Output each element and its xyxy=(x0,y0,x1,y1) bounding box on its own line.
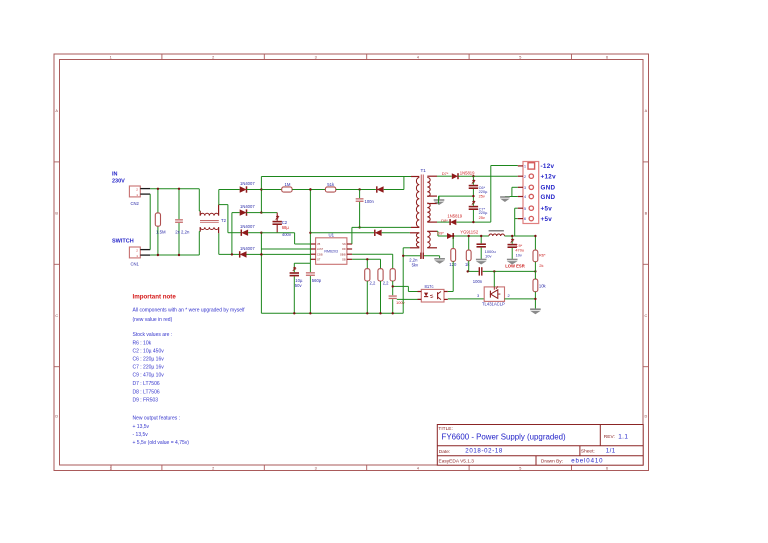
svg-text:T1: T1 xyxy=(421,168,427,173)
svg-text:C2 : 10µ 450v: C2 : 10µ 450v xyxy=(133,348,165,354)
svg-text:T2: T2 xyxy=(221,218,227,223)
resistor 51k xyxy=(325,187,335,192)
wire D3 anode to - vertical xyxy=(248,232,261,234)
wire opto left bottom xyxy=(397,298,422,300)
svg-text:D9 : FR503: D9 : FR503 xyxy=(133,398,159,404)
svg-text:C6 : 220µ 16v: C6 : 220µ 16v xyxy=(133,357,165,363)
wire D1 cathode to HV rail xyxy=(247,189,262,191)
svg-text:ebel0410: ebel0410 xyxy=(571,458,603,465)
resistor 1.5M xyxy=(155,213,160,226)
long vertical x=310.4 xyxy=(309,190,311,273)
svg-text:2: 2 xyxy=(212,467,214,471)
svg-text:C7 : 220µ 16v: C7 : 220µ 16v xyxy=(133,365,165,371)
svg-text:D8 : LT7506: D8 : LT7506 xyxy=(133,389,160,395)
T1 secondary leads xyxy=(427,175,437,177)
svg-text:817c: 817c xyxy=(425,284,434,289)
wire +12v row xyxy=(458,175,518,177)
wire top rail to D1 xyxy=(219,189,240,191)
svg-text:Stock values are :: Stock values are : xyxy=(133,332,173,338)
wire +5 rail left xyxy=(453,235,489,237)
svg-text:1.1: 1.1 xyxy=(618,433,628,440)
connector pads xyxy=(528,163,535,169)
resistor 120 xyxy=(452,236,454,249)
capacitor 560p xyxy=(306,272,315,273)
svg-text:2,2: 2,2 xyxy=(370,281,376,286)
svg-text:FY6600 - Power Supply (upgrade: FY6600 - Power Supply (upgraded) xyxy=(442,433,566,442)
svg-text:REV:: REV: xyxy=(604,434,615,440)
svg-text:C: C xyxy=(645,314,648,318)
svg-text:10v: 10v xyxy=(516,252,522,257)
wire C2 bottom to - rail xyxy=(261,232,277,234)
resistor 2,2 (c) xyxy=(390,269,395,281)
diode D4 1N4007 xyxy=(240,251,247,257)
TL431 xyxy=(484,287,504,302)
wire sec3 top jog xyxy=(436,230,439,232)
svg-text:1N4007: 1N4007 xyxy=(240,246,255,251)
svg-text:New output features :: New output features : xyxy=(133,416,181,422)
svg-text:10k: 10k xyxy=(539,284,547,289)
svg-text:3: 3 xyxy=(315,467,317,471)
wire opto collector to 120 xyxy=(448,291,453,293)
svg-text:4: 4 xyxy=(417,55,419,59)
junction aux row xyxy=(309,232,311,234)
IC U1 box xyxy=(316,238,347,264)
wire D4 anode xyxy=(247,253,262,255)
10u bottom lead xyxy=(293,276,295,313)
capacitor 10µ 50v xyxy=(290,272,299,274)
svg-text:GND: GND xyxy=(541,185,556,192)
svg-text:D: D xyxy=(55,415,58,419)
capacitor 100n snubber xyxy=(356,198,364,199)
wire mid GND tap xyxy=(439,195,474,197)
svg-text:2: 2 xyxy=(508,293,511,298)
T1 secondary winding 2 xyxy=(427,203,430,222)
svg-text:C: C xyxy=(55,314,58,318)
ground symbol (feedback) xyxy=(530,308,541,310)
svg-text:50v: 50v xyxy=(295,283,303,288)
choke T2 top winding xyxy=(200,213,218,215)
svg-text:5: 5 xyxy=(519,467,521,471)
svg-text:6: 6 xyxy=(606,55,608,59)
svg-text:1N4007: 1N4007 xyxy=(240,204,255,209)
C6/C7 chain xyxy=(472,176,474,185)
connector CN2 xyxy=(129,186,140,197)
connector CN1 xyxy=(129,247,140,258)
wire snubber rail y=189.5 xyxy=(261,189,281,191)
svg-text:51k: 51k xyxy=(327,182,335,187)
ground symbol (1000u) xyxy=(476,259,487,261)
svg-text:4: 4 xyxy=(417,467,419,471)
svg-text:D7 : LT7506: D7 : LT7506 xyxy=(133,381,160,387)
wire +5v to pins 5/6 xyxy=(514,208,516,236)
svg-text:1N4007: 1N4007 xyxy=(240,224,255,229)
diode D5 snubber xyxy=(377,186,384,192)
svg-text:3: 3 xyxy=(315,55,317,59)
wire top AC rail left xyxy=(150,188,199,190)
wire primary ground rail xyxy=(261,312,403,314)
svg-text:+5v: +5v xyxy=(541,216,553,223)
svg-text:-12v: -12v xyxy=(541,163,555,170)
svg-text:230V: 230V xyxy=(112,178,125,184)
diode D2 1N4007 xyxy=(240,209,247,215)
svg-text:VB: VB xyxy=(317,243,321,246)
T1 primary winding xyxy=(416,178,419,228)
svg-text:Drawn By:: Drawn By: xyxy=(541,459,563,465)
wire AC2 to D2 anode xyxy=(232,212,240,214)
svg-text:5kv: 5kv xyxy=(412,263,419,268)
ground symbol (2,2n) xyxy=(434,258,445,260)
ground symbol (connector) xyxy=(500,196,510,198)
svg-text:D9*: D9* xyxy=(437,231,444,236)
svg-text:CS/B: CS/B xyxy=(317,253,323,256)
svg-text:Important note: Important note xyxy=(133,294,177,301)
C2 bottom lead xyxy=(276,225,278,233)
svg-text:TITLE:: TITLE: xyxy=(438,426,452,432)
wire C2 top feed xyxy=(261,212,277,214)
connector pin stubs xyxy=(518,165,523,167)
CN1 pin wires (black) xyxy=(140,249,150,251)
wire U1 pin1R up to primary bottom row xyxy=(351,227,353,244)
resistor 1k xyxy=(468,236,470,250)
sense resistor bottoms xyxy=(366,281,368,313)
diode D3 1N4007 xyxy=(241,230,248,236)
svg-text:2k: 2k xyxy=(539,263,543,268)
capacitor C9* 470u xyxy=(508,244,517,246)
svg-text:D7*: D7* xyxy=(442,171,449,176)
inductor L1 xyxy=(489,230,504,232)
svg-text:A: A xyxy=(645,109,648,113)
wire -12v vertical xyxy=(490,166,492,223)
svg-text:6: 6 xyxy=(524,217,526,221)
svg-text:All components with an * were: All components with an * were upgraded b… xyxy=(133,308,246,314)
svg-text:D: D xyxy=(645,415,648,419)
sheet border frame inner xyxy=(60,60,644,466)
svg-text:+12v: +12v xyxy=(541,174,557,181)
capacitor 100n (snubber) xyxy=(359,190,361,199)
wire sec1 top to D7 xyxy=(437,175,452,177)
capacitor 1000u 10v xyxy=(477,243,486,245)
wire AC1 branch xyxy=(219,204,228,206)
capacitor C6* 220u 25v xyxy=(469,185,478,187)
opto transistor xyxy=(437,292,439,299)
svg-text:Date:: Date: xyxy=(439,449,450,455)
svg-text:5: 5 xyxy=(519,55,521,59)
svg-text:1: 1 xyxy=(110,55,112,59)
wire U1 pin4R to sense R1/R2 xyxy=(352,258,380,260)
svg-text:1N5819: 1N5819 xyxy=(447,213,462,218)
svg-text:25v: 25v xyxy=(479,215,485,220)
svg-text:+ 5,5v (old value = 4,75v): + 5,5v (old value = 4,75v) xyxy=(133,440,190,446)
svg-text:SWITCH: SWITCH xyxy=(112,238,134,244)
svg-text:3: 3 xyxy=(477,293,480,298)
optocoupler 817c box xyxy=(421,289,444,302)
ruler ticks left/right xyxy=(54,161,60,163)
svg-text:GND: GND xyxy=(541,194,556,201)
svg-text:1: 1 xyxy=(524,165,526,169)
svg-text:2,2: 2,2 xyxy=(383,281,389,286)
wire choke left verticals xyxy=(198,189,200,211)
svg-text:+ 13,5v: + 13,5v xyxy=(133,424,150,430)
wire switch loop vertical xyxy=(149,194,151,250)
resistor 1M xyxy=(282,187,292,192)
capacitor 2x 2,2n leads xyxy=(178,189,180,219)
svg-text:(new value in red): (new value in red) xyxy=(133,317,173,323)
svg-text:6: 6 xyxy=(606,467,608,471)
svg-text:+5v: +5v xyxy=(541,206,553,213)
wire feedback row xyxy=(468,270,479,272)
resistor 1k xyxy=(466,250,471,261)
capacitor 2,2n 5kv (Y-cap) xyxy=(420,253,421,259)
sec2 top lead join xyxy=(438,196,440,203)
wire D5 to primary corner xyxy=(384,189,404,191)
sheet border frame outer xyxy=(54,54,649,471)
GND hookup pins 3/4 xyxy=(512,186,518,188)
svg-text:5: 5 xyxy=(524,207,526,211)
svg-text:68µ: 68µ xyxy=(282,225,290,230)
ground symbol (transformer tap) xyxy=(434,199,445,201)
wire AC2 down xyxy=(218,233,220,254)
wire -12v to pin1 xyxy=(491,165,518,167)
wire AC1 to D3 cathode xyxy=(228,232,241,234)
opto pin stubs xyxy=(418,291,422,293)
svg-text:25v: 25v xyxy=(479,194,485,199)
svg-text:3: 3 xyxy=(524,186,526,190)
TL431 ref wire xyxy=(493,271,495,287)
svg-text:C9 : 470µ 10v: C9 : 470µ 10v xyxy=(133,373,165,379)
T1 primary leads xyxy=(411,176,419,178)
wire D2 cathode to + vertical xyxy=(247,212,262,214)
U1 right pin stubs xyxy=(347,243,352,245)
wire to U1 pin2 xyxy=(261,248,310,250)
capacitor 100v (feedback filter) xyxy=(389,295,397,296)
ruler ticks top/bottom xyxy=(161,54,163,60)
wire aux rectifier row xyxy=(310,232,374,234)
svg-text:2: 2 xyxy=(212,55,214,59)
ground sec (2,2n) xyxy=(439,256,441,259)
svg-text:LCST: LCST xyxy=(317,248,324,251)
capacitor 1000u 10v xyxy=(480,236,482,243)
svg-text:2018-02-18: 2018-02-18 xyxy=(465,448,503,455)
CN2 pin wires (black) xyxy=(140,188,150,190)
choke leads xyxy=(199,211,201,216)
wire opto emitter to TL431 row xyxy=(448,298,484,300)
wire HV rail top y=176.5 xyxy=(261,176,411,178)
choke T2 core xyxy=(200,220,219,222)
wire AC1 up to top rail xyxy=(218,190,220,205)
svg-text:4: 4 xyxy=(524,195,526,199)
T1 secondary winding 3 (5v) xyxy=(427,232,430,248)
resistor 2,2 (a) xyxy=(365,269,370,281)
svg-text:GB/B: GB/B xyxy=(340,253,346,256)
wire branch to opto left top xyxy=(393,285,409,287)
capacitor C2 68µ/400v xyxy=(273,221,282,223)
resistor 10k xyxy=(533,279,538,292)
svg-text:1/1: 1/1 xyxy=(606,447,616,454)
TL431 pin2 wire xyxy=(505,298,536,300)
T1 aux leads xyxy=(410,232,419,234)
svg-text:100n: 100n xyxy=(473,279,483,284)
resistor 2,2 (b) xyxy=(378,269,383,281)
svg-text:1N4007: 1N4007 xyxy=(240,181,255,186)
wire aux bottom return xyxy=(403,247,410,249)
svg-text:1k: 1k xyxy=(465,262,470,267)
svg-text:EasyEDA V5.1.3: EasyEDA V5.1.3 xyxy=(439,459,475,465)
opto LED xyxy=(424,293,428,297)
wire AC2 to D4 cathode xyxy=(219,253,240,255)
wire D3 row extension to U1 pin1 xyxy=(277,232,294,234)
diode D5b aux xyxy=(375,230,382,236)
svg-text:1M: 1M xyxy=(285,182,291,187)
wire - rail to U1 pin3 xyxy=(261,253,310,255)
svg-text:U1: U1 xyxy=(329,233,335,238)
resistor 120 xyxy=(451,249,456,262)
wire 10u top to pin4 column xyxy=(294,262,310,264)
transformer T1 core xyxy=(420,175,422,259)
capacitor C9* 470u 10v xyxy=(511,236,513,244)
svg-text:RM6203: RM6203 xyxy=(324,250,338,254)
svg-text:10v: 10v xyxy=(485,253,491,258)
choke T2 bottom winding xyxy=(200,227,218,229)
capacitor 100n (feedback) xyxy=(479,267,480,275)
svg-text:100n: 100n xyxy=(365,199,375,204)
svg-text:CN1: CN1 xyxy=(131,261,140,266)
wire primary bottom row xyxy=(352,226,411,228)
title block xyxy=(437,425,643,466)
connector P1 box xyxy=(523,162,539,224)
diode D1 1N4007 xyxy=(240,186,247,192)
svg-text:2x 2,2n: 2x 2,2n xyxy=(175,229,190,234)
T1 secondary winding 1 xyxy=(427,178,430,197)
svg-text:- 13,5v: - 13,5v xyxy=(133,432,149,438)
svg-text:1N5819: 1N5819 xyxy=(460,170,475,175)
wire U1 pin3R to sense R3 xyxy=(352,253,393,255)
svg-text:CN2: CN2 xyxy=(131,201,140,206)
capacitor 2x 2,2n xyxy=(175,219,183,220)
diode D7* 1N5819 xyxy=(452,173,458,179)
wire + HV vertical xyxy=(260,177,262,213)
svg-text:SN: SN xyxy=(342,243,346,246)
svg-text:Sheet:: Sheet: xyxy=(581,449,595,455)
svg-text:LOW ESR: LOW ESR xyxy=(505,264,525,269)
svg-text:YG911S2: YG911S2 xyxy=(460,229,479,234)
wire bottom AC rail left xyxy=(150,254,199,256)
resistor R6* 2k xyxy=(533,250,538,262)
ground symbol (C9) xyxy=(507,259,518,261)
svg-text:B: B xyxy=(55,212,58,216)
svg-text:560p: 560p xyxy=(312,278,322,283)
wire - HV vertical down to bottom rail xyxy=(260,233,262,314)
T1 aux winding xyxy=(416,233,419,247)
svg-text:IN: IN xyxy=(112,171,118,177)
svg-text:GT: GT xyxy=(317,259,321,262)
U1 left pin stubs xyxy=(310,243,315,245)
svg-text:B: B xyxy=(645,212,648,216)
svg-text:RD: RD xyxy=(342,248,346,251)
wire +5 rail right xyxy=(505,235,536,237)
svg-text:2: 2 xyxy=(524,175,526,179)
svg-text:TL431ACLP: TL431ACLP xyxy=(482,302,505,307)
diode D9* YG911S2 xyxy=(447,233,453,239)
diode D8* 1N5819 xyxy=(450,219,456,225)
resistor 1.5M leads xyxy=(157,189,159,213)
svg-text:A: A xyxy=(55,109,58,113)
wire AC2 vertical D2-D4 xyxy=(231,213,233,255)
wire corner up to HV top rail xyxy=(403,177,405,190)
svg-text:1.5M: 1.5M xyxy=(156,229,166,234)
svg-text:R6*: R6* xyxy=(539,252,546,257)
svg-text:DB: DB xyxy=(342,259,346,262)
svg-text:R6 : 10k: R6 : 10k xyxy=(133,340,152,346)
resistor R6* 2k xyxy=(534,236,536,250)
capacitor C7* 220u 25v xyxy=(469,206,478,208)
